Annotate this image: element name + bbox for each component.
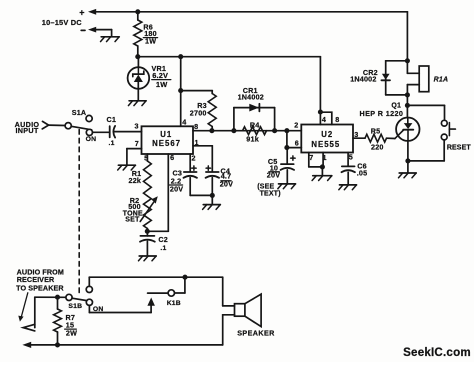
svg-text:R5: R5 [371,127,381,136]
svg-text:1W: 1W [156,80,168,89]
svg-text:91k: 91k [246,135,259,144]
svg-text:.1: .1 [109,140,115,147]
svg-text:2700: 2700 [190,108,207,117]
svg-text:8: 8 [335,115,339,124]
svg-text:5: 5 [349,153,353,162]
svg-text:2W: 2W [66,329,77,338]
svg-text:NE567: NE567 [152,139,181,148]
svg-text:R4: R4 [250,121,260,130]
svg-text:S1A: S1A [72,108,87,117]
svg-text:3: 3 [134,121,138,130]
svg-text:TEXT): TEXT) [260,190,281,197]
svg-text:22k: 22k [129,176,142,185]
svg-text:1W: 1W [145,37,156,46]
svg-text:C2: C2 [158,235,168,244]
svg-text:U1: U1 [160,130,172,139]
svg-text:C1: C1 [107,115,117,124]
svg-text:20V: 20V [170,184,183,193]
svg-text:220: 220 [371,142,384,151]
svg-text:SeekIC.com: SeekIC.com [403,346,471,359]
svg-text:K1B: K1B [167,300,181,307]
svg-text:R1A: R1A [434,76,449,83]
svg-text:4: 4 [182,117,186,126]
svg-text:20V: 20V [267,170,280,179]
svg-text:6: 6 [295,139,299,148]
svg-text:RESET: RESET [447,145,471,152]
svg-text:INPUT: INPUT [15,126,38,135]
svg-text:2: 2 [191,154,195,163]
svg-text:7: 7 [135,139,139,148]
svg-text:NE555: NE555 [311,140,340,149]
svg-text:S1B: S1B [68,303,82,310]
svg-text:1N4002: 1N4002 [238,92,264,101]
svg-text:.1: .1 [160,245,166,252]
svg-text:.05: .05 [357,168,368,177]
svg-text:+: + [79,7,84,17]
svg-text:4: 4 [322,115,326,124]
svg-text:SPEAKER: SPEAKER [237,328,275,337]
svg-text:20V: 20V [220,180,233,189]
svg-text:TO SPEAKER: TO SPEAKER [16,284,64,293]
svg-text:HEP R 1220: HEP R 1220 [359,109,403,118]
svg-text:2: 2 [294,121,298,130]
svg-text:U2: U2 [321,130,333,139]
svg-text:ON: ON [86,136,97,143]
svg-text:7: 7 [309,153,313,162]
svg-text:10–15V DC: 10–15V DC [42,18,82,27]
svg-text:6: 6 [170,153,174,162]
svg-text:SET: SET [125,216,140,223]
svg-text:1N4002: 1N4002 [350,74,376,83]
